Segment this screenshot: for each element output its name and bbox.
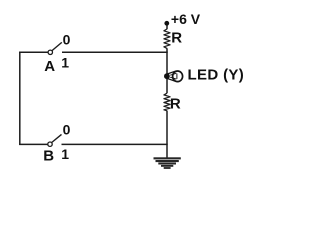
svg-text:R: R <box>170 96 181 113</box>
svg-text:+6 V: +6 V <box>171 11 201 27</box>
svg-text:0: 0 <box>63 122 71 138</box>
svg-text:1: 1 <box>61 146 69 162</box>
svg-text:1: 1 <box>61 54 69 70</box>
svg-text:0: 0 <box>63 32 71 48</box>
svg-text:LED (Y): LED (Y) <box>188 67 245 84</box>
svg-text:R: R <box>171 29 182 46</box>
svg-text:B: B <box>43 147 54 164</box>
svg-text:A: A <box>44 58 55 75</box>
